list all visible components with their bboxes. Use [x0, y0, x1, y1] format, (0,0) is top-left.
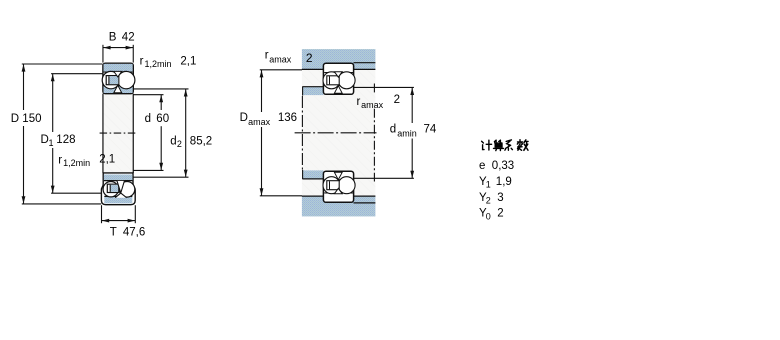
label r1,2min 2,1 (upper) [140, 55, 197, 69]
svg-text:60: 60 [156, 113, 169, 125]
svg-text:D: D [11, 113, 19, 125]
svg-text:3: 3 [497, 192, 503, 204]
svg-text:e: e [479, 160, 485, 172]
svg-text:0,33: 0,33 [492, 160, 514, 172]
label B 42 [109, 31, 135, 43]
svg-text:2: 2 [394, 94, 400, 106]
svg-text:B: B [109, 31, 117, 43]
svg-text:74: 74 [424, 124, 437, 136]
label damin 74 [390, 124, 437, 139]
bore strip between top and bottom sections [103, 94, 133, 173]
svg-text:2: 2 [177, 139, 182, 149]
svg-text:r: r [58, 154, 62, 166]
svg-text:amax: amax [269, 54, 292, 64]
char ji (calculate) [482, 140, 492, 150]
left ball (top section) [102, 71, 119, 88]
dimension B : dimension line with arrows [103, 46, 133, 50]
phantom line housing bore (right) [373, 84, 375, 182]
svg-text:2,1: 2,1 [180, 55, 196, 67]
bottom bearing section outline (wider pill) [101, 173, 135, 205]
raceway notches (bottom box) [334, 172, 342, 193]
top bearing section outline [103, 63, 133, 93]
label r1,2min 2,1 (lower) [58, 153, 115, 168]
dimension Damax : dimension line with arrows [260, 70, 264, 196]
label r amax 2 (top left) [265, 50, 313, 65]
bearing box (top, right view) [323, 63, 353, 94]
housing band (bottom) [302, 196, 376, 217]
dimension T : extension lines [102, 205, 136, 223]
dimension Damax : extension lines [260, 70, 302, 196]
svg-text:r: r [357, 96, 361, 108]
dimension d : dimension line with arrows [159, 95, 163, 171]
svg-text:d: d [390, 124, 396, 136]
svg-text:150: 150 [22, 113, 41, 125]
svg-text:2: 2 [497, 208, 503, 220]
cage pocket (bottom section) [107, 184, 118, 192]
svg-text:amin: amin [397, 129, 417, 139]
left ball (bottom section) [103, 182, 118, 197]
factor line e 0,33 [479, 160, 514, 172]
dimension d2 : extension lines [133, 89, 188, 177]
char shu [517, 140, 522, 151]
svg-text:1,9: 1,9 [496, 176, 512, 188]
label T 47,6 [110, 226, 145, 238]
svg-text:1: 1 [49, 138, 54, 148]
housing band (top) [302, 49, 376, 69]
inner ring hatched band (bottom section) [104, 175, 132, 181]
label D 150 [11, 113, 42, 125]
raceway notches (top box) [334, 72, 342, 93]
inner ring hatched band (top section) [104, 86, 133, 93]
right ball (bottom box) [338, 177, 355, 194]
dimension damin : dimension line with arrows [410, 87, 414, 178]
outer ring hatched band (top section) [104, 64, 133, 72]
svg-text:136: 136 [278, 112, 297, 124]
svg-text:T: T [110, 226, 117, 238]
bearing box (bottom, right view) [323, 171, 353, 202]
char xi [505, 140, 513, 150]
label r amax 2 (middle right) [357, 94, 401, 110]
raceway notch top (bottom section) [117, 181, 124, 193]
dimension d2 : dimension line with arrows [184, 89, 188, 177]
svg-text:d: d [170, 136, 176, 148]
shaft shoulder (bottom) [302, 170, 323, 179]
svg-text:r: r [265, 50, 269, 62]
label d2 85,2 [170, 136, 212, 150]
cage pocket (top box) [327, 76, 339, 85]
svg-text:42: 42 [122, 31, 135, 43]
svg-text:2: 2 [486, 196, 491, 206]
svg-text:amax: amax [248, 117, 271, 127]
raceway notch bottom (top section) [114, 85, 122, 93]
svg-text:D: D [240, 112, 248, 124]
raceway notch bottom (bottom section) [115, 193, 126, 198]
shaft shoulder (top) [302, 87, 323, 96]
svg-text:128: 128 [56, 134, 75, 146]
svg-text:1: 1 [486, 180, 491, 190]
svg-text:amax: amax [361, 100, 384, 110]
axis centerline (left view) [100, 132, 137, 134]
label Damax 136 [240, 112, 297, 127]
outer ring hatched band (bottom section) [104, 196, 132, 203]
svg-text:0: 0 [486, 211, 491, 221]
cage pocket (top section) [106, 76, 119, 85]
dimension D : dimension line with arrows [22, 64, 26, 204]
dimension damin : extension lines [354, 87, 414, 178]
dimension T : dimension line with arrows [102, 219, 136, 223]
dimension B : extension lines [103, 45, 133, 63]
svg-text:1,2min: 1,2min [63, 158, 90, 168]
svg-text:2: 2 [306, 51, 313, 65]
svg-text:d: d [145, 113, 151, 125]
cage pocket (bottom box) [327, 181, 339, 190]
svg-text:2,1: 2,1 [99, 153, 115, 165]
char suan [494, 140, 502, 143]
dimension d : extension lines [133, 95, 163, 171]
dimension D1 : extension lines [51, 74, 102, 194]
svg-text:1,2min: 1,2min [145, 59, 172, 69]
factor line Y1 1,9 [479, 176, 512, 190]
right ball (top section) [118, 71, 135, 88]
heading (hand-drawn CJK strokes) [482, 140, 528, 151]
svg-text:r: r [140, 55, 144, 67]
left ball (top box) [323, 72, 340, 89]
svg-text:47,6: 47,6 [123, 226, 145, 238]
right ball (bottom section) [119, 182, 135, 198]
axis centerline (right view) [295, 132, 377, 134]
shaft end phantom line (left) [301, 96, 303, 170]
svg-text:85,2: 85,2 [190, 136, 212, 148]
label D1 128 [41, 134, 76, 148]
raceway notch top (top section) [114, 71, 122, 77]
factor line Y2 3 [479, 192, 504, 206]
dimension D : extension lines [22, 64, 103, 204]
shaft and housing material block [302, 49, 376, 216]
right ball (top box) [338, 72, 355, 89]
label d 60 [145, 113, 169, 125]
left ball (bottom box) [323, 177, 340, 194]
dimension D1 : dimension line with arrows [51, 74, 55, 194]
factor line Y0 2 [479, 208, 504, 222]
